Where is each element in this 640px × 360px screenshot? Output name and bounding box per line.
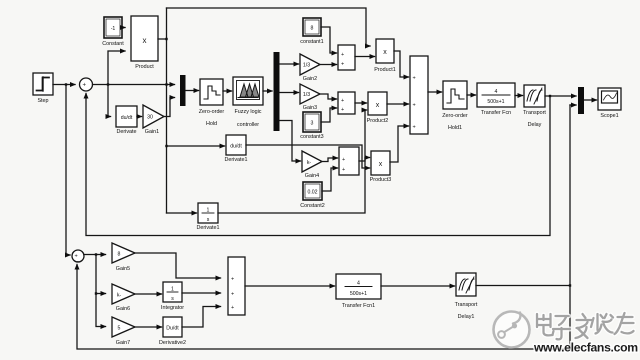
wire Demux out1 to Gain2 [280,63,299,65]
wire Transfer Fcn1 to Transport Delay1 [381,285,455,287]
zero-order hold block Zero-order Hold [200,79,223,105]
wire riser x570 up to Mux2 and down to bottom feedback [569,105,571,349]
wire SumA to Product1 input 2 [355,56,375,58]
wire Demux out2 to Gain3 [280,92,299,94]
labels layer [37,39,618,346]
svg-text:Gain7: Gain7 [116,340,130,346]
svg-text:Step: Step [37,98,48,104]
demux Demux (black bar) [274,52,280,131]
svg-text:constant3: constant3 [300,134,323,140]
wire Product output joining riser V1 [158,38,167,40]
junction node V1/product-out [165,38,167,40]
integrator block Integrator (1/s) [163,282,182,302]
wire Mux2 to Scope1 [584,99,597,101]
transport delay block Transport Delay1 [456,273,476,296]
mux Mux2 (black bar) [578,87,584,114]
wire Sum1 output (error e) to Mux1 input 1 [93,84,175,86]
wire SumD to Zero-order Hold1 [428,91,442,93]
svg-text:+: + [231,277,234,283]
mux Mux1 (black bar) [180,75,186,106]
derivative block Derivate (du/dt) [116,106,137,127]
wire branch to Gain6 [96,293,106,295]
constant block Constant (-1) [104,17,122,38]
svg-text:1: 1 [207,208,210,214]
watermark elecfans logo [494,312,530,348]
wire constant3 to SumB input 2 [321,108,337,122]
wire Gain5 to SumE input 1 [135,253,221,278]
svg-text:controller: controller [237,122,259,128]
svg-text:k-: k- [307,160,312,166]
svg-text:5: 5 [118,326,121,332]
svg-text:Gain5: Gain5 [116,266,130,272]
svg-text:Derivate1: Derivate1 [224,157,247,163]
svg-text:+: + [413,103,416,109]
svg-text:Gain3: Gain3 [303,105,317,111]
svg-text:s: s [171,296,174,302]
wire Integrator to SumE input 2 [182,292,221,294]
transfer function block Transfer Fcn1 [336,274,381,299]
svg-text:Fuzzy logic: Fuzzy logic [235,109,262,115]
derivative block Derivative2 (Du/dt) [163,317,182,337]
wire riser x96 down to Gain6 and Gain7 [96,255,106,327]
svg-text:Gain1: Gain1 [145,129,159,135]
svg-text:Hold1: Hold1 [448,125,462,131]
gain triangle Gain5 [112,243,135,263]
junction node feedback tap at (550,96) [549,95,551,97]
svg-text:Integrator: Integrator [161,305,184,311]
wire Product1 to SumD input 1 [394,51,409,77]
wire branch up to Product input 2 [108,51,125,85]
junction node at (96,254.5) [95,253,97,255]
product block Product3 [371,151,390,175]
svg-text:Constant2: Constant2 [300,203,325,209]
gain triangle Gain7 [112,317,135,337]
junction node at x108 [107,83,109,85]
svg-text:Delay1: Delay1 [458,314,475,320]
junction node at (96,293.5) [95,292,97,294]
svg-text:4: 4 [495,89,498,95]
sum block SumC [339,147,359,175]
watermark text dianzi fashaoyou (drawn strokes, white halo) [537,313,634,339]
gain triangle Gain3 [300,84,320,104]
sum block SumD (tall) [410,56,428,134]
wire Transport Delay to Mux2 input 1 [545,95,576,97]
svg-text:+: + [231,292,234,298]
svg-text:Derivative2: Derivative2 [159,340,186,346]
sum junction Sum1 (circle) [80,78,93,95]
fuzzy logic controller block U-fuzzy [233,77,263,105]
wire Gain6 to Integrator [135,293,162,295]
product block Product2 [368,92,387,115]
svg-text:30: 30 [147,115,153,121]
svg-text:500s+1: 500s+1 [487,99,504,105]
svg-text:1: 1 [171,287,174,293]
wire riser x570 to Mux2 input 2 [570,104,576,106]
constant block constant3 (3) [303,112,321,132]
svg-text:x: x [143,36,147,45]
svg-text:Transport: Transport [523,110,546,116]
char dian [537,314,554,335]
svg-text:+: + [342,157,345,163]
svg-text:1/3: 1/3 [303,63,310,69]
gain triangle Gain6 [112,284,135,304]
svg-text:www.elecfans.com: www.elecfans.com [533,341,638,355]
wire riser V1 (x166.5, y8 to y213) [166,8,168,213]
sum junction Sum2 (circle) [72,250,84,265]
sum block SumE (tall) [228,257,245,315]
junction node at (570,285.5) [569,284,571,286]
svg-text:Transfer Fcn: Transfer Fcn [481,110,511,116]
wire bottom feedback to Sum2 lower input [77,265,570,350]
svg-text:Gain6: Gain6 [116,306,130,312]
svg-text:+: + [413,125,416,131]
svg-text:3: 3 [311,121,314,127]
svg-text:Transport: Transport [455,302,478,308]
svg-text:constant1: constant1 [300,39,323,45]
wire Gain3 to SumB input 1 [320,94,337,99]
svg-text:x: x [379,161,383,168]
svg-text:Product2: Product2 [367,118,389,124]
svg-text:Scope1: Scope1 [600,113,618,119]
gain triangle Gain2 [300,54,320,75]
transport delay block Transport Delay [524,85,545,107]
wire V2 error branch down to Sum2 [66,85,70,256]
wire branch down to Derivate input [108,85,111,117]
integrator block Derivate2 (1/s lower left of group) [198,203,218,223]
svg-text:s: s [207,217,210,223]
svg-text:-1: -1 [111,26,116,32]
product block Product [131,16,158,61]
wire Transfer Fcn to Transport Delay [515,95,523,97]
wire top line H1 (y8) to Product1 input 1 [167,8,371,46]
svg-text:+: + [341,107,344,113]
wire Hold to Fuzzy Logic Controller [223,90,232,92]
junction node at x66 on error wire [65,83,67,85]
svg-text:4: 4 [357,281,360,287]
char shao [591,314,613,334]
gain triangle Gain4 [302,151,322,172]
wire Derivate to Gain1 [137,116,142,118]
wire SumE to Transfer Fcn1 [245,285,335,287]
svg-text:Gain2: Gain2 [303,76,317,82]
svg-text:+: + [342,167,345,173]
wire Derivate1 to Product3 input 2 [246,145,370,168]
zero-order hold block Zero-order Hold1 [443,81,467,109]
svg-text:du/dt: du/dt [121,115,133,121]
junction node at x166.5 [165,83,167,85]
wire Derivative2 to SumE input 3 [182,307,221,328]
derivative block Derivate1 (du/dt) [226,135,246,155]
wire Transport Delay1 to riser x570 [476,285,570,287]
char fa [576,314,592,338]
wire Product2 to SumD input 2 [387,103,409,105]
wire Fuzzy to Demux [263,90,272,92]
svg-text:Gain4: Gain4 [305,173,319,179]
wire Demux out3 down to Gain4 [280,121,301,162]
wire Product3 to SumD input 3 [390,126,409,162]
product block Product1 [376,39,394,63]
transfer function block Transfer Fcn [477,83,515,107]
svg-text:Product: Product [135,64,154,70]
svg-text:x: x [383,49,387,56]
svg-text:8: 8 [311,26,314,32]
wire SumB to Product2 input 1 [355,102,367,104]
wire Gain1 to Mux1 input 2 [164,98,175,117]
svg-text:Du/dt: Du/dt [166,326,179,332]
svg-text:Product1: Product1 [374,67,396,73]
step source block Step [33,73,53,95]
wire constant1 to SumA input 1 [321,27,337,53]
svg-text:Derivate1: Derivate1 [196,225,219,231]
wire Gain2 to SumA input 2 [320,64,337,66]
sum block SumA [338,45,355,70]
svg-text:Product3: Product3 [370,177,392,183]
wire feedback V4/H3 to Sum1 lower input [86,94,550,236]
wire Step to Sum1 [53,84,75,86]
wire Mux1 to Zero-order Hold [186,90,199,92]
svg-text:Derivate: Derivate [116,129,136,135]
scope block Scope1 [598,88,621,110]
wire Constant2 to SumC input 2 [322,168,338,191]
svg-text:Transfer Fcn1: Transfer Fcn1 [342,303,375,309]
wire V1 bottom to integrator input [167,212,197,214]
svg-text:x: x [376,102,380,109]
svg-text:1/3: 1/3 [303,92,310,98]
wire Hold1 to Transfer Fcn [467,94,476,96]
char you [615,313,634,334]
svg-text:8: 8 [118,252,121,258]
wire Sum2 output to Gain5 [84,254,106,256]
svg-text:+: + [413,76,416,82]
junction node V1/derivate1-tap [165,145,167,147]
sum block SumB [338,92,355,114]
svg-text:k-: k- [117,293,122,299]
constant block constant1 (8) [303,18,321,36]
svg-text:-: - [77,259,79,265]
wire Gain7 to Derivative2 [135,326,162,328]
svg-text:+: + [341,62,344,68]
char zi [553,316,570,339]
wire SumC to Product3 input 1 [359,158,370,162]
svg-text:Hold: Hold [206,121,217,127]
svg-text:du/dt: du/dt [230,144,242,150]
svg-text:+: + [341,52,344,58]
svg-text:0.02: 0.02 [307,190,317,196]
gain triangle Gain1 [143,105,164,128]
svg-text:+: + [341,98,344,104]
svg-text:+: + [231,305,234,311]
svg-text:Constant: Constant [102,41,124,47]
svg-text:Zero-order: Zero-order [442,113,468,119]
svg-text:Delay: Delay [528,122,542,128]
svg-text:500s+1: 500s+1 [350,291,367,297]
svg-text:Zero-order: Zero-order [199,109,225,115]
wire Gain4 to SumC input 1 [322,158,338,162]
wire integrator output to Product2 input 2 riser [218,110,367,213]
constant block Constant2 (0.02) [303,182,322,200]
wire V1 tap to Derivate1 input [167,145,225,147]
wire Constant to Product input 1 [122,27,125,29]
